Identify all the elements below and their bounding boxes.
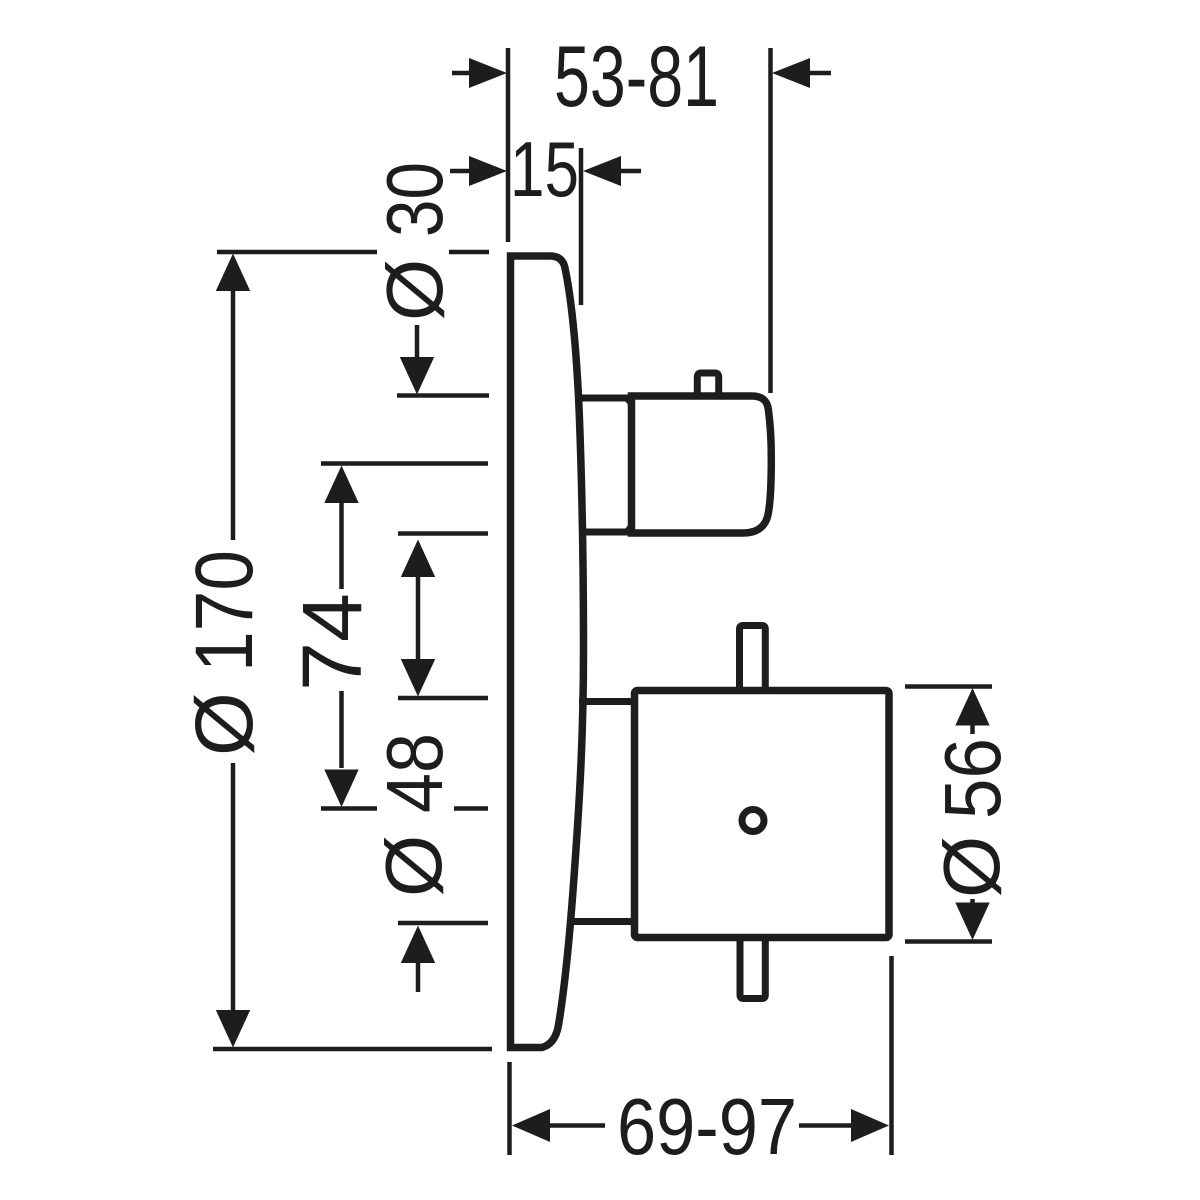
wire: stem between dia-48 arrows (416, 575, 421, 659)
wire: 69-97 dimension line segments (549, 1123, 605, 1128)
node: square top tab (740, 626, 766, 690)
svg-text:53-81: 53-81 (554, 29, 719, 125)
svg-text:170: 170 (179, 550, 270, 672)
svg-text:15: 15 (510, 125, 579, 213)
wire: reference line y698 (boss top) (398, 696, 488, 701)
node: 69-97 right arrow (851, 1109, 889, 1142)
node: 74 top arrow (324, 466, 358, 504)
node: 15 left arrow (469, 156, 507, 186)
wire: extension line right of 69-97 (889, 956, 894, 1155)
node: 53-81 right arrow (772, 58, 810, 88)
node: 53-81 left arrow (469, 58, 507, 88)
wire: tick y808 left (square centre) (321, 806, 377, 811)
wire: reference line y463 (handle centre) (321, 461, 488, 466)
node: dia-30 down arrow (400, 357, 434, 395)
wire: dia-56 bottom line (905, 939, 992, 944)
wire: tick y808 right (454, 806, 488, 811)
node: handle boss bottom fillet (616, 518, 630, 532)
svg-text:74: 74 (285, 593, 379, 691)
wire: extension line left (wall plane) (506, 48, 511, 242)
node: arrow up at y923 (401, 926, 435, 964)
node: arrow down at y698 (401, 659, 435, 697)
wire: reference line y395 (handle top) (397, 393, 489, 398)
wire: stem of dia-30 arrow (415, 325, 420, 360)
node: handle boss top line with fillet (576, 395, 629, 402)
wire: reference line y533 (handle bottom) (398, 531, 488, 536)
node: arrow up at y533 (401, 540, 435, 578)
wire: reference line y923 (boss bottom) (398, 921, 488, 926)
node: square centre screw (742, 810, 764, 832)
wire: 15 dimension tails (450, 169, 472, 174)
svg-text:Ø: Ø (179, 692, 270, 756)
svg-text:Ø: Ø (369, 835, 458, 897)
wire: top reference line y252 (plate top) (217, 250, 377, 255)
node: 15 right arrow (583, 156, 621, 186)
wire: stem below y923 arrow (416, 961, 421, 992)
node: dia-170 top arrow (216, 254, 250, 292)
wire: 53-81 dimension tails (452, 71, 474, 76)
wire: 74 stems (339, 503, 344, 589)
wire: dia-170 stems (231, 291, 236, 540)
wire: extension line right of 15 (plate face) (579, 148, 584, 305)
node: handle boss top fillet (616, 398, 630, 412)
svg-text:56: 56 (928, 738, 1017, 819)
wire: dia-56 stems (970, 724, 975, 734)
svg-text:Ø: Ø (927, 836, 1016, 898)
node: handle top nub (697, 373, 718, 395)
node: dia-56 up arrow (955, 688, 989, 726)
node: handle boss bottom line with fillet (579, 529, 629, 536)
node: square boss bottom line (574, 918, 633, 925)
svg-text:Ø: Ø (370, 259, 459, 321)
wire: bottom reference line y1049 (plate bottom) (213, 1047, 492, 1052)
node: escutcheon plate (side view) (511, 256, 584, 1048)
node: dia-56 down arrow (955, 903, 989, 941)
node: thermostat handle body (632, 396, 772, 533)
node: 69-97 left arrow (512, 1109, 550, 1142)
node: shut-off handle square (635, 691, 890, 938)
wire: extension line right of 53-81 (handle face) (768, 48, 773, 393)
wire: extension line left of 69-97 (507, 1062, 512, 1155)
node: square bottom tab (740, 939, 765, 999)
node: 74 bottom arrow (324, 770, 358, 808)
svg-text:69-97: 69-97 (617, 1082, 797, 1171)
svg-text:48: 48 (370, 733, 459, 813)
node: square boss top line (579, 698, 633, 705)
node: dia-170 bottom arrow (216, 1010, 250, 1048)
wire: dia-56 top line (905, 684, 992, 689)
svg-text:30: 30 (370, 162, 459, 237)
